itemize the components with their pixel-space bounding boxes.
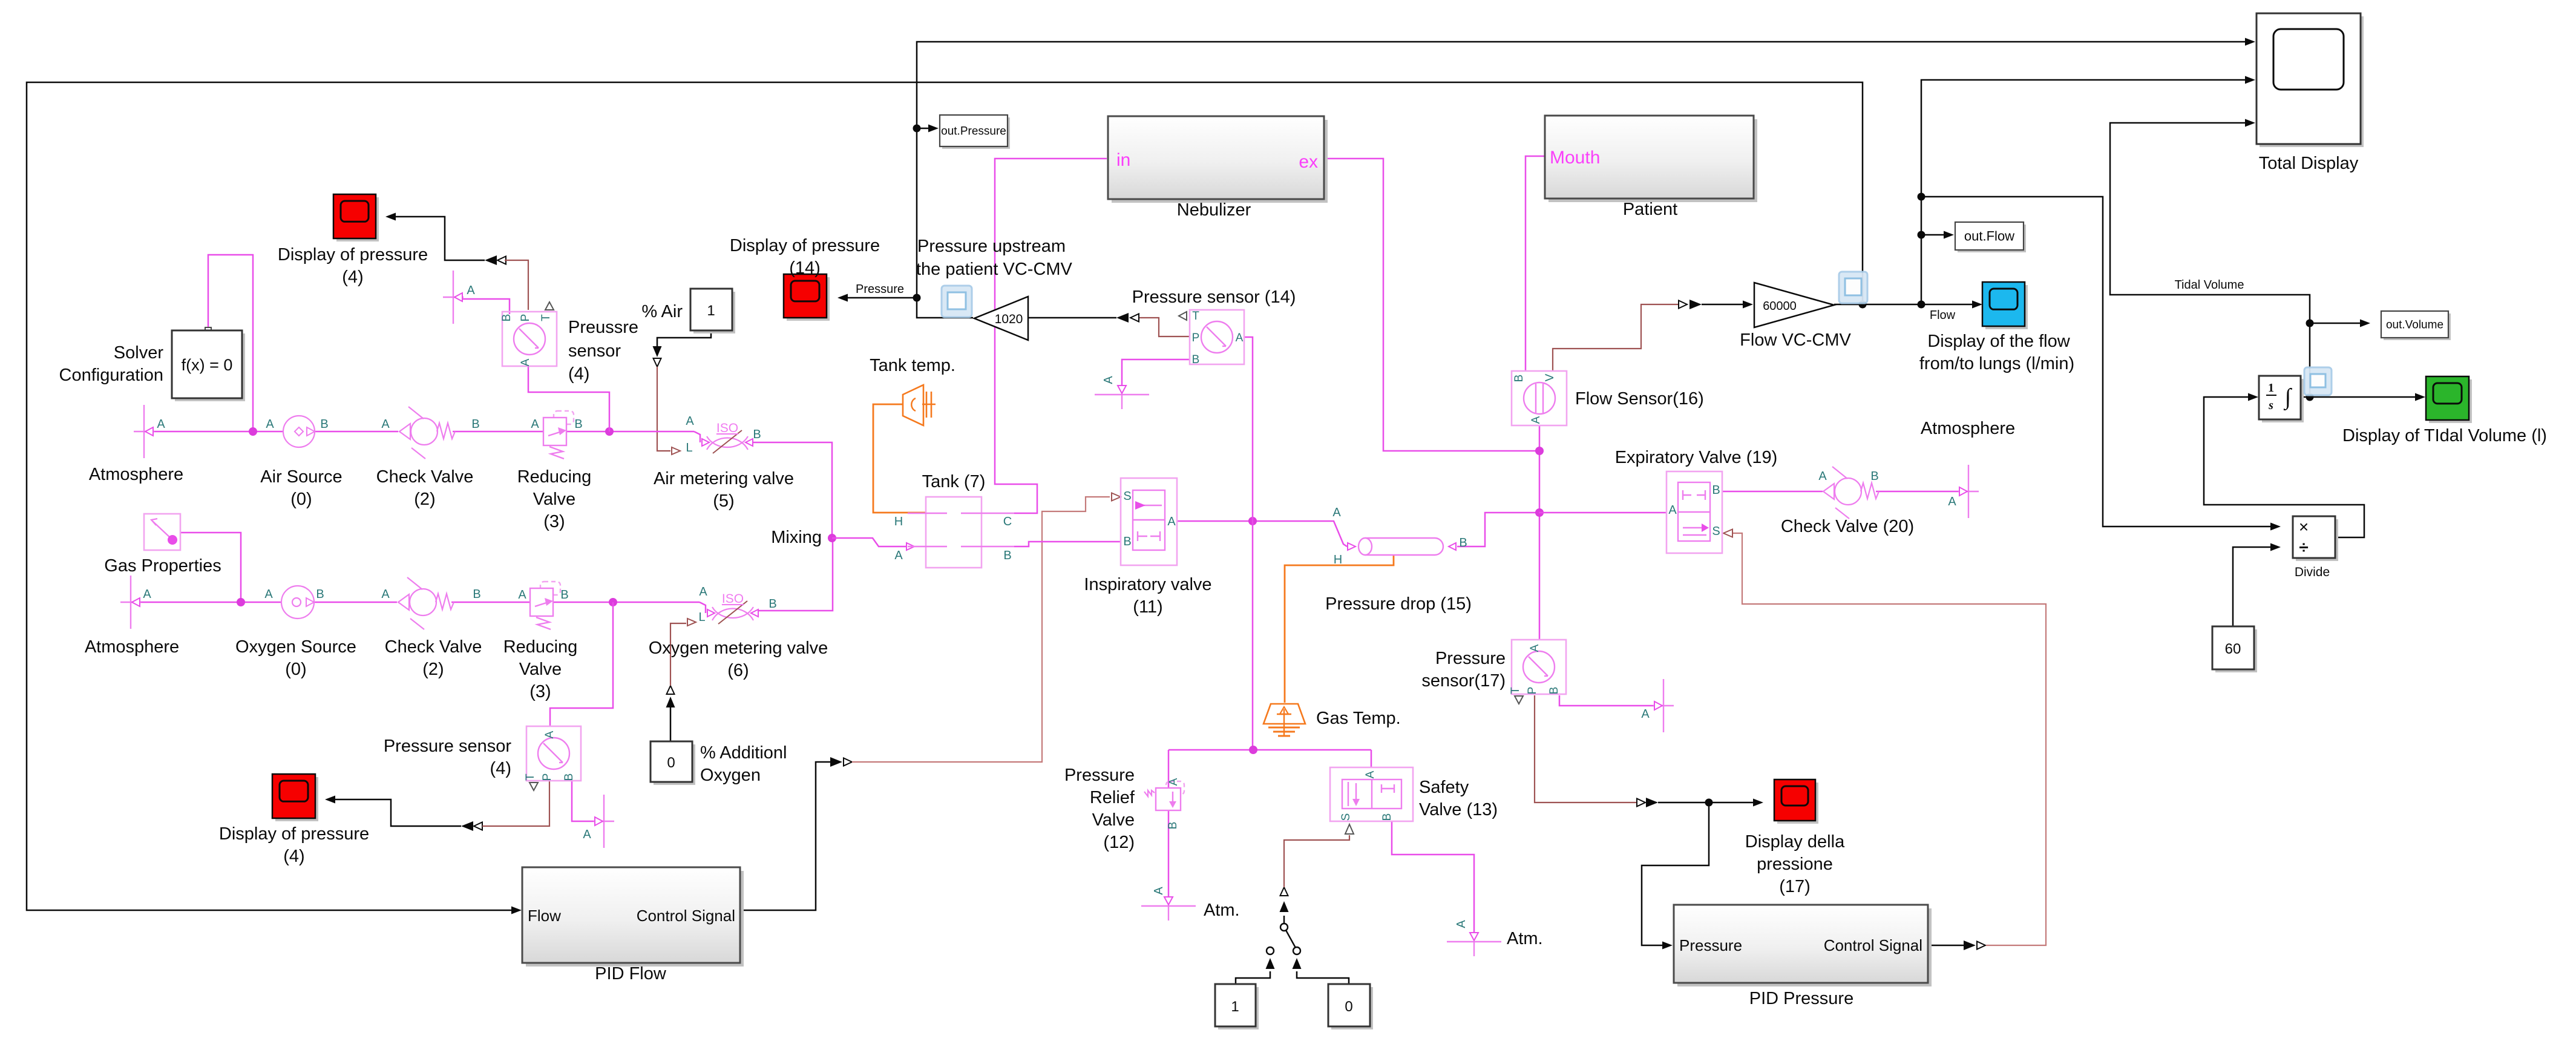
component Reducing Valve (3) air — [554, 411, 574, 424]
svg-text:Control Signal: Control Signal — [1824, 936, 1922, 954]
wire Tank B to Inspiratory valve B — [1014, 542, 1121, 546]
svg-text:T: T — [1192, 310, 1199, 323]
svg-text:T: T — [524, 773, 537, 781]
wire PID Pressure output to signal-PS converter — [1928, 945, 1964, 947]
svg-text:P: P — [1526, 687, 1539, 695]
svg-text:H: H — [894, 515, 903, 528]
wire pressure signal trunk up to Total Display input 1 — [917, 42, 2245, 298]
wire Preussre sensor (4) P to Display of pressure (4) top — [497, 257, 506, 264]
wire Gas Properties to oxygen line — [180, 533, 241, 602]
block out.Volume — [2384, 313, 2451, 340]
svg-text:A: A — [381, 588, 390, 601]
component Pressure sensor (14) — [1190, 310, 1244, 364]
block gain 1020 Pressure upstream the patient VC-CMV — [974, 297, 1028, 340]
component Oxygen Source (0) — [281, 586, 314, 619]
wire Pressure sensor (14) B to atmosphere reference — [1122, 359, 1190, 386]
wire main junction to Expiratory Valve A — [1539, 512, 1667, 514]
svg-text:B: B — [500, 314, 513, 322]
wire Pressure sensor (14) A down to circuit — [1244, 337, 1253, 521]
svg-text:S: S — [1340, 813, 1352, 821]
svg-text:B: B — [769, 597, 776, 611]
svg-text:Mouth: Mouth — [1550, 148, 1600, 168]
atmosphere reference air line (left) — [143, 405, 145, 458]
svg-text:A: A — [518, 588, 526, 602]
wire air line: Reducing Valve (3) to Air metering valve A — [566, 431, 694, 433]
svg-text:A: A — [157, 418, 165, 431]
svg-text:A: A — [1167, 778, 1180, 786]
svg-text:ISO: ISO — [716, 421, 738, 435]
svg-text:L: L — [686, 441, 692, 455]
svg-text:Valve: Valve — [519, 660, 562, 679]
svg-text:Preussre: Preussre — [568, 318, 638, 337]
component Expiratory Valve (19) — [1667, 471, 1722, 553]
svg-text:Check Valve (20): Check Valve (20) — [1781, 517, 1914, 536]
svg-text:Display della: Display della — [1745, 832, 1845, 852]
svg-text:Reducing: Reducing — [517, 467, 592, 487]
wire relief/safety row horizontal — [1168, 749, 1371, 751]
wire branch to out.Pressure — [913, 125, 921, 133]
svg-text:out.Volume: out.Volume — [2386, 319, 2443, 332]
component Tank (7) — [926, 497, 982, 568]
svg-text:Display of TIdal Volume (l): Display of TIdal Volume (l) — [2342, 426, 2547, 445]
svg-text:(3): (3) — [543, 512, 565, 531]
svg-text:Nebulizer: Nebulizer — [1177, 200, 1251, 220]
wire gain 1020 output to Display of pressure (14) — [847, 298, 973, 318]
svg-text:1020: 1020 — [995, 312, 1023, 326]
svg-text:pressione: pressione — [1757, 855, 1833, 874]
wire Preussre sensor (4) B to atmosphere reference — [462, 299, 510, 314]
atmosphere reference Atm. below Pressure Relief Valve (12) — [1141, 905, 1196, 907]
wire flow feedback from Flow VC-CMV output to PID Flow input — [27, 82, 1863, 910]
wire thermal: Tank temp. to Tank H — [873, 404, 944, 513]
svg-text:B: B — [1712, 484, 1720, 497]
svg-text:Pressure: Pressure — [1064, 766, 1135, 785]
wire PS: PID Pressure control to Expiratory Valve S — [1733, 533, 2046, 945]
block constant 1 (% Air) — [693, 292, 735, 333]
svg-text:Atmosphere: Atmosphere — [89, 465, 183, 484]
wire PS: switch signal to Safety Valve S — [1284, 835, 1349, 887]
block constant 0 (% Additionl Oxygen) — [654, 744, 695, 785]
svg-text:V: V — [1544, 373, 1556, 381]
svg-text:(14): (14) — [789, 258, 821, 278]
component Oxygen metering valve (6) — [700, 602, 706, 613]
component Reducing Valve (3) oxygen — [540, 582, 560, 595]
svg-text:A: A — [531, 418, 539, 431]
svg-text:ISO: ISO — [722, 592, 744, 606]
svg-text:1: 1 — [2268, 381, 2274, 395]
svg-text:(2): (2) — [414, 490, 435, 509]
wire circuit down to safety/relief row — [1252, 521, 1254, 750]
svg-text:Atm.: Atm. — [1204, 901, 1240, 920]
svg-text:Check Valve: Check Valve — [385, 637, 482, 657]
wire pressure sensor(17) P to Display della pressione (PS-signal converter) — [1637, 799, 1645, 807]
wire % Additionl Oxygen constant to oxygen metering valve L (signal-PS converter) — [670, 707, 672, 741]
wire Pressure Relief Valve (12) B to Atm. — [1168, 810, 1170, 896]
svg-text:P: P — [519, 314, 532, 322]
svg-text:B: B — [1123, 535, 1131, 548]
wire Safety Valve (13) B to Atm. — [1392, 821, 1474, 932]
svg-text:B: B — [1870, 470, 1878, 483]
component pressure sensor(17) — [1512, 640, 1566, 694]
svg-text:Gas Temp.: Gas Temp. — [1316, 709, 1401, 728]
svg-text:% Additionl: % Additionl — [700, 743, 787, 763]
svg-text:from/to lungs (l/min): from/to lungs (l/min) — [1919, 354, 2074, 373]
svg-text:Inspiratory valve: Inspiratory valve — [1084, 575, 1211, 594]
block Display della pressione (17) scope — [1777, 783, 1818, 824]
wire Pressure drop (15) B to main junction — [1457, 513, 1539, 546]
atmosphere reference after Check Valve (20) — [1968, 465, 1969, 518]
atmosphere reference for Pressure sensor (14) B / Atm. — [1095, 394, 1149, 395]
wire Patient Mouth to Flow Sensor B — [1526, 156, 1545, 371]
svg-text:A: A — [699, 585, 707, 599]
wire air line: Air Source B to Check Valve (2) — [315, 431, 398, 433]
wire Expiratory Valve B to Check Valve (20) — [1722, 491, 1823, 493]
viewer badge on integrator — [2304, 367, 2332, 395]
svg-text:PID Flow: PID Flow — [595, 964, 667, 983]
block PID Pressure subsystem — [1677, 908, 1932, 986]
wire down to Safety Valve (13) A — [1371, 750, 1372, 767]
wire down to Pressure Relief Valve (12) A — [1168, 750, 1170, 788]
wire Flow VC-CMV gain output to Display of the flow — [1834, 304, 1973, 306]
svg-text:Atmosphere: Atmosphere — [85, 637, 179, 657]
component Air Source (0) — [283, 416, 315, 447]
svg-text:B: B — [320, 418, 328, 431]
svg-text:A: A — [467, 284, 475, 297]
svg-text:B: B — [1459, 536, 1467, 550]
svg-text:Pressure sensor: Pressure sensor — [384, 737, 511, 756]
svg-text:Relief: Relief — [1090, 788, 1135, 807]
wire constant 60 to Divide input 2 — [2233, 547, 2270, 626]
atmosphere reference for pressure sensor(17) B — [1663, 679, 1664, 732]
viewer badge on gain 1020 — [942, 286, 972, 317]
svg-text:the patient VC-CMV: the patient VC-CMV — [916, 260, 1073, 279]
svg-text:S: S — [1123, 490, 1131, 503]
svg-text:Flow: Flow — [1930, 309, 1956, 322]
wire PS: % Air to air metering valve L — [657, 367, 670, 451]
svg-text:s: s — [2268, 399, 2273, 412]
svg-text:A: A — [519, 358, 532, 366]
svg-text:A: A — [543, 730, 556, 738]
svg-text:sensor(17): sensor(17) — [1421, 671, 1506, 691]
svg-text:Total Display: Total Display — [2259, 154, 2359, 173]
svg-text:B: B — [471, 418, 479, 431]
svg-text:A: A — [1455, 920, 1468, 928]
svg-text:A: A — [1530, 416, 1542, 424]
block Solver Configuration — [175, 333, 245, 401]
block out.Flow — [1958, 225, 2026, 252]
svg-text:in: in — [1116, 150, 1130, 170]
wire Check Valve (20) B to Atmosphere — [1876, 491, 1959, 493]
svg-text:(5): (5) — [713, 491, 734, 511]
svg-text:sensor: sensor — [568, 341, 621, 361]
wire PS: flow sensor V to converter — [1553, 304, 1678, 371]
svg-text:A: A — [1152, 887, 1165, 895]
block Display of TIdal Volume scope — [2429, 379, 2472, 423]
svg-text:A: A — [1529, 644, 1541, 652]
svg-text:A: A — [1818, 470, 1827, 483]
svg-text:B: B — [560, 588, 568, 602]
svg-text:B: B — [1548, 687, 1561, 695]
svg-text:P: P — [541, 773, 554, 781]
svg-text:Air Source: Air Source — [260, 467, 342, 487]
svg-text:60: 60 — [2225, 641, 2241, 657]
svg-text:C: C — [1003, 515, 1012, 528]
svg-text:÷: ÷ — [2299, 538, 2308, 557]
svg-text:ex: ex — [1299, 152, 1318, 172]
wire oxygen line: Check Valve (2) to Reducing Valve (3) — [451, 602, 530, 603]
block integrator 1/s — [2262, 379, 2304, 422]
svg-text:B: B — [1003, 549, 1011, 562]
component Gas Temp. thermal sensor — [1263, 704, 1305, 724]
wire Nebulizer ex to main junction — [1324, 159, 1539, 451]
component Pressure Relief Valve (12) — [1166, 781, 1184, 795]
atmosphere reference for Pressure sensor (4) bottom B — [603, 795, 605, 848]
svg-text:A: A — [894, 549, 903, 562]
wire Preussre sensor (4) A to air line — [528, 366, 609, 432]
svg-text:Mixing: Mixing — [771, 528, 822, 547]
atmosphere reference oxygen line (left) — [130, 576, 131, 629]
svg-text:(4): (4) — [342, 267, 363, 287]
svg-text:A: A — [1236, 332, 1244, 344]
component Flow Sensor(16) — [1512, 371, 1567, 425]
wire Solver Configuration connection — [208, 255, 253, 432]
wire Mixing junction to Tank A — [832, 538, 906, 546]
svg-text:A: A — [266, 418, 274, 431]
component Tank temp. thermal source — [903, 385, 923, 425]
wire switch to safety valve S (signal-PS converter) — [1283, 916, 1285, 931]
svg-text:H: H — [1334, 553, 1342, 566]
svg-text:(3): (3) — [529, 682, 551, 701]
wire PS: PID Flow control to Inspiratory valve S — [852, 497, 1110, 762]
svg-text:Patient: Patient — [1623, 200, 1677, 219]
svg-text:Display of pressure: Display of pressure — [219, 824, 369, 844]
wire oxygen line: Atmosphere to Oxygen Source A — [138, 602, 281, 603]
wire air line: Atmosphere to Air Source A — [152, 431, 283, 433]
atmosphere reference Atm. below Safety Valve (13) — [1447, 941, 1501, 942]
block gain 60000 Flow VC-CMV — [1754, 283, 1834, 327]
svg-text:Flow Sensor(16): Flow Sensor(16) — [1575, 389, 1704, 409]
svg-text:Safety: Safety — [1419, 778, 1469, 797]
svg-text:(4): (4) — [568, 364, 589, 384]
component Safety Valve (13) — [1330, 767, 1413, 821]
svg-text:A: A — [1102, 376, 1115, 384]
wire Divide output to integrator input — [2204, 397, 2364, 537]
component Pressure drop (15) pipe — [1365, 538, 1443, 555]
wire flow branch to Divide input 1 — [1918, 193, 1925, 201]
svg-text:(0): (0) — [290, 490, 312, 509]
svg-text:Air metering valve: Air metering valve — [654, 469, 794, 488]
component Pressure sensor (4) bottom — [526, 726, 581, 781]
svg-text:Flow: Flow — [528, 907, 561, 925]
svg-text:1: 1 — [707, 303, 715, 319]
wire % Air constant to air metering valve L (signal-PS converter) — [657, 330, 711, 346]
svg-text:A: A — [1668, 504, 1677, 517]
component Gas Properties — [144, 514, 180, 550]
svg-text:A: A — [381, 418, 390, 431]
wire oxygen line: Reducing Valve (3) to Oxygen metering valve A — [553, 602, 700, 603]
block PID Flow subsystem — [526, 871, 744, 967]
svg-text:Reducing: Reducing — [503, 637, 578, 657]
block Display of pressure (14) scope — [787, 277, 830, 321]
svg-text:Check Valve: Check Valve — [376, 467, 474, 487]
svg-text:Display of the flow: Display of the flow — [1927, 332, 2070, 351]
svg-text:T: T — [540, 314, 552, 321]
wire branch to out.Volume — [2306, 320, 2314, 327]
svg-text:A: A — [1948, 495, 1956, 508]
svg-text:Atmosphere: Atmosphere — [1921, 419, 2015, 438]
component Preussre sensor (4) — [502, 312, 557, 366]
block Nebulizer subsystem — [1112, 120, 1328, 203]
switch block — [1280, 924, 1288, 931]
svg-text:A: A — [1364, 770, 1377, 778]
svg-text:Oxygen Source: Oxygen Source — [235, 637, 356, 657]
svg-text:B: B — [753, 428, 761, 441]
wire Pressure sensor (4) bottom B to atmosphere reference — [572, 781, 594, 821]
svg-text:(4): (4) — [283, 847, 304, 866]
wire pressure sensor (14) P to gain 1020 input (PS-signal converter) — [1130, 314, 1139, 322]
block constant 60 — [2215, 629, 2257, 672]
svg-text:(6): (6) — [727, 661, 749, 680]
svg-text:A: A — [1332, 506, 1341, 519]
block Display of the flow scope — [1985, 285, 2028, 329]
svg-text:Display of pressure: Display of pressure — [278, 245, 428, 264]
svg-text:A: A — [1641, 707, 1650, 721]
block Patient subsystem — [1549, 119, 1757, 202]
svg-text:Valve: Valve — [533, 490, 575, 509]
svg-text:A: A — [583, 828, 591, 841]
svg-text:L: L — [698, 611, 705, 624]
atmosphere reference for Preussre sensor (4) B — [453, 271, 454, 324]
svg-text:(12): (12) — [1103, 833, 1135, 852]
svg-text:S: S — [1712, 525, 1720, 538]
svg-text:B: B — [1192, 353, 1200, 366]
component Air metering valve (5) — [694, 432, 700, 442]
block constant 1 (switch) — [1218, 987, 1259, 1029]
wire constant 0 to switch right contact — [1297, 971, 1349, 984]
block Total Display scope — [2260, 16, 2364, 147]
svg-text:Atm.: Atm. — [1507, 929, 1543, 948]
wire flow sensor V to gain 60000 input (PS-signal converter) — [1679, 301, 1687, 309]
wire flow branch up to Total Display input 2 — [1921, 80, 2245, 304]
wire Inspiratory valve A to breathing circuit — [1177, 521, 1347, 546]
wire branch to PID Pressure input — [1642, 802, 1709, 945]
svg-text:Pressure: Pressure — [856, 283, 904, 296]
svg-text:Divide: Divide — [2295, 565, 2330, 579]
svg-text:B: B — [1513, 375, 1526, 382]
svg-text:B: B — [563, 773, 575, 781]
svg-text:Pressure drop (15): Pressure drop (15) — [1325, 594, 1472, 614]
wire PS: pressure sensor (4) bottom P — [482, 781, 549, 826]
svg-text:1: 1 — [1231, 999, 1239, 1015]
component Check Valve (2) air — [399, 424, 410, 439]
svg-text:Tank temp.: Tank temp. — [870, 356, 955, 375]
svg-text:Oxygen metering valve: Oxygen metering valve — [649, 638, 828, 658]
svg-text:0: 0 — [1345, 999, 1352, 1015]
wire pressure sensor(17) B to atmosphere reference — [1559, 695, 1654, 706]
svg-text:Pressure upstream: Pressure upstream — [917, 237, 1066, 256]
svg-text:% Air: % Air — [641, 302, 683, 321]
svg-text:B: B — [1381, 813, 1394, 821]
block out.Pressure — [942, 117, 1010, 149]
svg-text:B: B — [473, 588, 480, 601]
svg-text:60000: 60000 — [1763, 300, 1797, 313]
svg-text:out.Flow: out.Flow — [1964, 229, 2014, 244]
wire PS: Preussre sensor (4) P — [505, 260, 528, 310]
svg-text:B: B — [316, 588, 324, 601]
wire integrator output to Display of TIdal Volume — [2306, 393, 2314, 401]
svg-text:×: × — [2299, 517, 2309, 536]
node Mixing junction — [828, 534, 836, 542]
svg-text:Pressure: Pressure — [1435, 649, 1506, 668]
svg-text:PID Pressure: PID Pressure — [1749, 989, 1853, 1008]
svg-text:A: A — [686, 415, 694, 428]
block constant 0 (switch) — [1331, 987, 1373, 1029]
svg-text:A: A — [1167, 515, 1176, 528]
svg-text:Flow VC-CMV: Flow VC-CMV — [1740, 330, 1851, 350]
component Inspiratory valve (11) — [1121, 478, 1177, 565]
wire PS: pressure sensor (14) P to converter — [1139, 318, 1190, 336]
svg-text:A: A — [264, 588, 273, 601]
svg-text:Pressure sensor (14): Pressure sensor (14) — [1132, 287, 1296, 307]
block Display of pressure (4) top scope — [336, 197, 379, 241]
svg-text:B: B — [1167, 822, 1179, 830]
wire thermal: Pressure drop H to Gas Temp. — [1381, 554, 1416, 556]
svg-text:Configuration: Configuration — [59, 366, 164, 385]
svg-text:Expiratory Valve (19): Expiratory Valve (19) — [1615, 448, 1778, 467]
wire oxygen metering valve B to Mixing junction — [758, 538, 833, 611]
svg-text:B: B — [574, 418, 582, 431]
svg-text:Tidal Volume: Tidal Volume — [2175, 278, 2244, 292]
svg-text:(0): (0) — [285, 660, 306, 679]
component Check Valve (20) — [1823, 484, 1834, 499]
block Divide — [2296, 519, 2338, 561]
svg-text:Pressure: Pressure — [1679, 936, 1742, 954]
svg-text:Valve: Valve — [1092, 810, 1135, 830]
block Display of pressure (4) bottom scope — [275, 777, 318, 821]
wire oxygen line: Oxygen Source B to Check Valve (2) — [314, 602, 397, 603]
wire air line: Check Valve (2) to Reducing Valve (3) — [453, 431, 543, 433]
wire Pressure sensor (4) bottom A to oxygen line — [550, 602, 613, 726]
svg-text:Solver: Solver — [114, 343, 164, 363]
svg-text:Oxygen: Oxygen — [700, 766, 761, 785]
wire air metering valve B to Mixing junction — [750, 442, 832, 538]
svg-text:(4): (4) — [490, 759, 511, 778]
wire Tidal Volume from integrator up to Total Display input 3 — [2110, 123, 2310, 397]
svg-text:P: P — [1192, 332, 1200, 344]
svg-text:Tank (7): Tank (7) — [922, 472, 986, 491]
svg-text:Gas Properties: Gas Properties — [104, 556, 221, 576]
svg-text:(2): (2) — [422, 660, 444, 679]
svg-text:out.Pressure: out.Pressure — [941, 125, 1006, 138]
wire constant 1 to switch left contact — [1236, 971, 1270, 984]
svg-text:Valve (13): Valve (13) — [1419, 800, 1498, 819]
svg-text:Display of pressure: Display of pressure — [730, 236, 880, 255]
svg-text:A: A — [143, 588, 151, 601]
wire PS: pressure sensor(17) P to converter — [1535, 695, 1636, 802]
svg-text:f(x) = 0: f(x) = 0 — [182, 356, 233, 374]
svg-text:0: 0 — [667, 755, 675, 771]
wire main junction vertical below Flow Sensor A — [1539, 425, 1541, 640]
wire Pressure sensor (4) bottom P to Display of pressure (4) bottom — [474, 822, 482, 830]
svg-text:(11): (11) — [1133, 597, 1162, 617]
svg-text:Control Signal: Control Signal — [637, 907, 735, 925]
component Check Valve (2) oxygen — [398, 594, 409, 610]
wire PID Flow output to signal-PS converter — [740, 762, 830, 910]
svg-text:T: T — [1509, 687, 1522, 694]
wire PS: % Additionl Oxygen to oxygen metering valve L — [670, 623, 686, 686]
svg-text:(17): (17) — [1779, 877, 1811, 896]
wire Tank C to Nebulizer in — [995, 159, 1107, 513]
